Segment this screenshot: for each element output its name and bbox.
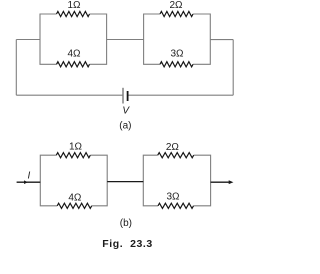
svg-text:(a): (a) — [119, 121, 131, 132]
wire right vertical (a) — [232, 40, 234, 96]
svg-text:I: I — [28, 171, 31, 182]
wire left lead (a) — [16, 39, 40, 41]
left parallel box (a) — [40, 14, 107, 64]
right parallel box (a) — [144, 14, 211, 64]
wire output lead (b) — [211, 181, 230, 183]
resistor 2Ω (a) — [160, 11, 193, 16]
svg-text:2Ω: 2Ω — [169, 0, 183, 11]
svg-text:4Ω: 4Ω — [68, 192, 82, 203]
wire input lead (b) — [17, 181, 41, 183]
resistor 4Ω (b) — [57, 203, 91, 208]
resistor 4Ω (a) — [57, 62, 90, 67]
svg-text:(b): (b) — [120, 218, 132, 229]
output arrowhead (b) — [229, 180, 234, 184]
resistor 3Ω (a) — [160, 62, 193, 67]
svg-text:Fig. 23.3: Fig. 23.3 — [102, 238, 152, 250]
svg-text:1Ω: 1Ω — [67, 0, 81, 11]
svg-text:V: V — [122, 106, 130, 117]
wire left vertical (a) — [15, 40, 17, 96]
svg-text:3Ω: 3Ω — [170, 49, 184, 60]
battery V: long plate — [122, 88, 124, 104]
wire middle (a) — [107, 39, 144, 41]
wire bottom right (a) — [128, 94, 233, 96]
current arrow I (b) — [24, 180, 28, 184]
resistor 1Ω (a) — [57, 11, 90, 16]
wire bottom left (a) — [16, 94, 122, 96]
wire right lead (a) — [210, 39, 233, 41]
svg-text:1Ω: 1Ω — [69, 141, 83, 152]
resistor 3Ω (b) — [158, 203, 194, 208]
svg-text:2Ω: 2Ω — [166, 142, 180, 153]
svg-text:4Ω: 4Ω — [67, 49, 81, 60]
wire middle (b) — [107, 181, 143, 183]
resistor 1Ω (b) — [56, 153, 90, 158]
svg-text:3Ω: 3Ω — [166, 191, 180, 202]
right parallel box (b) — [143, 155, 210, 206]
left parallel box (b) — [40, 155, 107, 206]
resistor 2Ω (b) — [158, 153, 194, 158]
battery V: short plate — [127, 91, 129, 101]
